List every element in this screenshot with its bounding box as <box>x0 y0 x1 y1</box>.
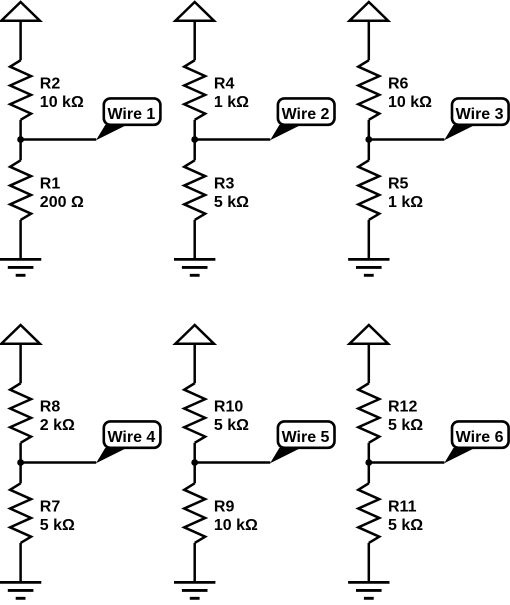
wire <box>19 543 22 582</box>
node junction (Wire 4) <box>17 459 24 466</box>
wire <box>193 120 196 161</box>
net label Wire 3 box <box>452 98 509 124</box>
wire <box>21 138 97 141</box>
ground <box>348 258 389 261</box>
node junction (Wire 5) <box>191 459 198 466</box>
svg-text:R10: R10 <box>214 399 243 416</box>
svg-text:R1: R1 <box>40 176 61 193</box>
resistor R3 <box>184 160 205 220</box>
power supply symbol (Wire 6 divider) <box>350 325 389 344</box>
net label Wire 4 tail <box>96 448 127 463</box>
wire <box>19 344 22 384</box>
svg-text:R7: R7 <box>40 499 61 516</box>
net label Wire 6 tail <box>444 448 475 463</box>
svg-text:5 kΩ: 5 kΩ <box>388 517 423 534</box>
svg-text:R12: R12 <box>388 399 417 416</box>
wire <box>193 543 196 582</box>
ground <box>0 581 41 584</box>
wire <box>369 138 445 141</box>
svg-text:Wire 5: Wire 5 <box>282 429 330 446</box>
svg-text:10 kΩ: 10 kΩ <box>214 517 258 534</box>
svg-text:5 kΩ: 5 kΩ <box>214 417 249 434</box>
ground <box>348 581 389 584</box>
power supply symbol (Wire 2 divider) <box>175 2 214 21</box>
svg-text:R4: R4 <box>214 76 235 93</box>
node junction (Wire 2) <box>191 136 198 143</box>
svg-text:Wire 3: Wire 3 <box>456 106 504 123</box>
svg-text:10 kΩ: 10 kΩ <box>388 94 432 111</box>
wire <box>368 344 371 384</box>
wire <box>19 21 22 61</box>
svg-text:5 kΩ: 5 kΩ <box>40 517 75 534</box>
net label Wire 4 box <box>104 421 161 447</box>
net label Wire 3 tail <box>444 125 475 140</box>
ground <box>174 258 215 261</box>
wire <box>19 120 22 161</box>
resistor R12 <box>358 383 379 443</box>
node junction (Wire 1) <box>17 136 24 143</box>
node junction (Wire 3) <box>365 136 372 143</box>
power supply symbol (Wire 3 divider) <box>350 2 389 21</box>
svg-text:5 kΩ: 5 kΩ <box>388 417 423 434</box>
wire <box>19 443 22 484</box>
resistor R8 <box>10 383 31 443</box>
resistor R1 <box>10 160 31 220</box>
svg-text:R5: R5 <box>388 176 409 193</box>
svg-text:5 kΩ: 5 kΩ <box>214 194 249 211</box>
wire <box>195 461 271 464</box>
resistor R9 <box>184 483 205 543</box>
power supply symbol (Wire 4 divider) <box>1 325 40 344</box>
svg-text:Wire 2: Wire 2 <box>282 106 330 123</box>
wire <box>21 461 97 464</box>
resistor R2 <box>10 60 31 120</box>
ground <box>0 258 41 261</box>
net label Wire 1 box <box>104 98 161 124</box>
resistor R6 <box>358 60 379 120</box>
wire <box>368 443 371 484</box>
wire <box>369 461 445 464</box>
power supply symbol (Wire 1 divider) <box>1 2 40 21</box>
net label Wire 5 tail <box>270 448 301 463</box>
ground <box>174 581 215 584</box>
wire <box>193 21 196 61</box>
resistor R5 <box>358 160 379 220</box>
resistor R11 <box>358 483 379 543</box>
svg-text:1 kΩ: 1 kΩ <box>388 194 423 211</box>
svg-text:1 kΩ: 1 kΩ <box>214 94 249 111</box>
wire <box>368 543 371 582</box>
svg-text:2 kΩ: 2 kΩ <box>40 417 75 434</box>
node junction (Wire 6) <box>365 459 372 466</box>
svg-text:R2: R2 <box>40 76 61 93</box>
wire <box>19 220 22 259</box>
svg-text:R11: R11 <box>388 499 417 516</box>
wire <box>195 138 271 141</box>
svg-text:Wire 6: Wire 6 <box>456 429 504 446</box>
svg-text:Wire 1: Wire 1 <box>107 106 155 123</box>
net label Wire 1 tail <box>96 125 127 140</box>
wire <box>368 120 371 161</box>
resistor R10 <box>184 383 205 443</box>
net label Wire 2 tail <box>270 125 301 140</box>
svg-text:R8: R8 <box>40 399 61 416</box>
net label Wire 5 box <box>278 421 335 447</box>
wire <box>193 344 196 384</box>
wire <box>193 220 196 259</box>
power supply symbol (Wire 5 divider) <box>175 325 214 344</box>
wire <box>368 21 371 61</box>
resistor R7 <box>10 483 31 543</box>
svg-text:10 kΩ: 10 kΩ <box>40 94 84 111</box>
resistor R4 <box>184 60 205 120</box>
svg-text:Wire 4: Wire 4 <box>107 429 155 446</box>
svg-text:R9: R9 <box>214 499 235 516</box>
wire <box>368 220 371 259</box>
net label Wire 6 box <box>452 421 509 447</box>
svg-text:R6: R6 <box>388 76 409 93</box>
svg-text:R3: R3 <box>214 176 235 193</box>
wire <box>193 443 196 484</box>
net label Wire 2 box <box>278 98 335 124</box>
svg-text:200 Ω: 200 Ω <box>40 194 84 211</box>
